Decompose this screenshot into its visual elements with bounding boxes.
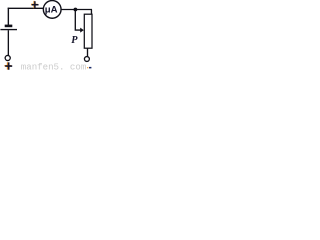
terminal right (open circle) (84, 57, 89, 62)
svg-text:P: P (71, 35, 78, 46)
wire battery to left terminal (7, 30, 9, 55)
rheostat P body rectangle (84, 14, 92, 48)
plus sign bottom (orange under-layer) (4, 62, 11, 69)
battery negative plate (short thick) (5, 25, 13, 28)
wire right vertical (corner down to rheostat top) (90, 10, 92, 15)
watermark logo orange square (87, 67, 88, 68)
plus sign top (orange under-layer) (31, 1, 38, 8)
junction node dot (74, 8, 78, 12)
background (0, 0, 94, 72)
terminal left (open circle) (5, 55, 10, 60)
watermark logo navy dash (89, 67, 91, 69)
wiper arrowhead (80, 28, 84, 33)
ammeter U1 circle (43, 1, 61, 19)
wire rheostat bottom to right terminal (87, 48, 89, 56)
wire top horizontal left (corner to meter) (8, 7, 44, 9)
plus sign bottom (dark) (5, 62, 12, 69)
plus sign top (dark) (32, 1, 39, 8)
svg-text:manfen5. com: manfen5. com (21, 62, 87, 72)
battery positive plate (long thin) (0, 29, 17, 30)
wire top horizontal right (meter to right corner) (61, 9, 92, 11)
wire wiper branch (junction down then right) (75, 10, 81, 31)
wire left vertical (corner down to battery) (7, 8, 9, 25)
svg-text:μA: μA (45, 4, 58, 15)
